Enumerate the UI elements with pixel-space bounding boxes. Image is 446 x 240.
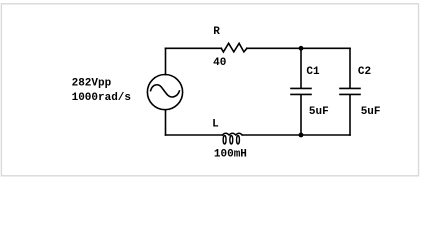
svg-text:40: 40 bbox=[213, 57, 226, 69]
inductor L humps bbox=[222, 133, 242, 135]
wire source bottom vertical bbox=[165, 110, 167, 135]
svg-text:1000rad/s: 1000rad/s bbox=[72, 92, 131, 104]
inductor L loop 1 bbox=[223, 136, 226, 144]
resistor R bbox=[221, 43, 247, 52]
wire C1 lower bbox=[300, 95, 302, 135]
svg-text:5uF: 5uF bbox=[361, 106, 381, 118]
svg-text:282Vpp: 282Vpp bbox=[72, 77, 112, 89]
svg-text:L: L bbox=[212, 118, 219, 130]
AC source sine wave bbox=[151, 85, 180, 97]
wire top-left vertical bbox=[165, 48, 167, 74]
AC source V1 circle bbox=[147, 75, 182, 110]
svg-text:100mH: 100mH bbox=[214, 149, 247, 161]
wire C2 lower bbox=[349, 95, 351, 135]
wire C2 branch down bbox=[349, 48, 351, 88]
svg-text:C2: C2 bbox=[358, 66, 371, 78]
wire bottom rail right bbox=[242, 134, 350, 136]
node junction top (C1 tap) bbox=[299, 46, 304, 51]
frame border bbox=[1, 4, 418, 176]
capacitor C2 bbox=[340, 88, 360, 94]
wire bottom rail left bbox=[166, 134, 223, 136]
svg-text:C1: C1 bbox=[306, 66, 320, 78]
wire top rail right bbox=[247, 47, 350, 49]
inductor L loop 3 bbox=[237, 136, 240, 144]
node junction bottom (C1 tap) bbox=[299, 133, 304, 138]
wire top rail left bbox=[166, 47, 222, 49]
capacitor C1 bbox=[291, 88, 311, 94]
svg-text:5uF: 5uF bbox=[309, 106, 329, 118]
wire C1 branch down bbox=[300, 48, 302, 88]
inductor L loop 2 bbox=[230, 136, 233, 144]
svg-text:R: R bbox=[213, 26, 220, 38]
